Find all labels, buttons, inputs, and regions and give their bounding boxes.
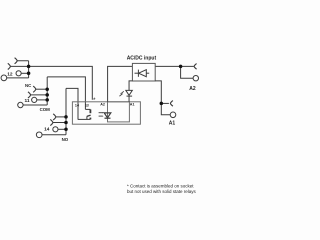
svg-text:COM: COM [40, 107, 51, 112]
svg-text:NO: NO [62, 137, 69, 142]
svg-text:A1: A1 [130, 103, 135, 107]
svg-text:*: * [93, 97, 96, 104]
svg-text:14: 14 [44, 127, 50, 133]
svg-text:A2: A2 [100, 103, 105, 107]
svg-text:NC: NC [25, 83, 31, 88]
svg-text:AC/DC input: AC/DC input [127, 55, 157, 61]
svg-text:A2: A2 [189, 86, 196, 92]
svg-text:* Contact is assembled on sock: * Contact is assembled on socket [127, 183, 194, 188]
svg-text:14: 14 [75, 104, 80, 108]
svg-text:13: 13 [85, 104, 89, 108]
svg-text:12: 12 [7, 71, 13, 77]
svg-text:A1: A1 [169, 121, 176, 127]
svg-text:11: 11 [25, 98, 30, 104]
svg-text:but not used with solid state: but not used with solid state relays [127, 189, 197, 194]
